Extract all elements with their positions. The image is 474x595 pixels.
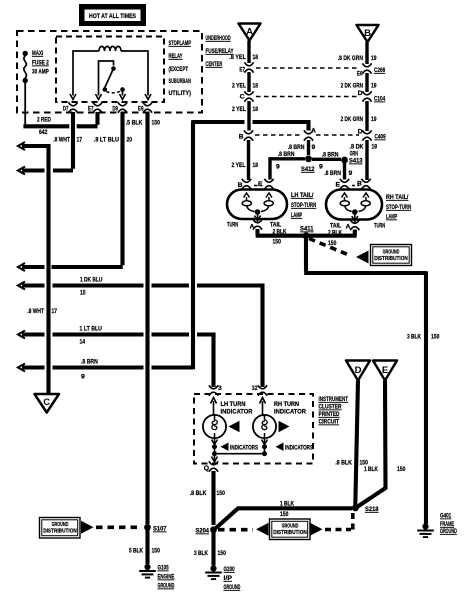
svg-text:G401: G401	[440, 513, 451, 520]
indicators arrow label RH	[276, 443, 284, 451]
svg-text:19: 19	[372, 144, 378, 151]
svg-text:2 DK GRN: 2 DK GRN	[341, 116, 363, 123]
connector D triangle	[346, 361, 370, 381]
svg-text:B: B	[357, 181, 362, 188]
connector C triangle	[35, 394, 60, 413]
wire .8 brn 9 from S412 to LH lamp pin E	[270, 159, 305, 180]
svg-text:5 BLK: 5 BLK	[129, 548, 143, 555]
svg-text:14: 14	[80, 339, 86, 346]
svg-text:LH TAIL/: LH TAIL/	[291, 192, 313, 199]
connector dashed line B-A-D	[255, 134, 301, 136]
wire 3 blk 150 from S411 to G401	[304, 239, 426, 525]
svg-text:9: 9	[81, 374, 85, 381]
ground distribution box (right)	[371, 245, 412, 266]
svg-text:2 RED: 2 RED	[37, 117, 51, 124]
LH indicator arrow	[229, 421, 240, 433]
dashed ground wire to S107	[96, 525, 139, 529]
svg-text:UTILITY): UTILITY)	[169, 90, 191, 97]
wire riser from brn run up and over to connector A	[191, 122, 308, 368]
svg-text:17: 17	[52, 308, 58, 315]
svg-text:SUBURBAN: SUBURBAN	[169, 78, 191, 85]
svg-text:E7: E7	[239, 67, 245, 74]
svg-text:1 BLK: 1 BLK	[280, 501, 294, 508]
connector E triangle	[373, 361, 397, 381]
svg-text:GROUND: GROUND	[282, 524, 299, 530]
svg-text:.8 LT BLU: .8 LT BLU	[94, 137, 119, 144]
relay coil pin arrows	[70, 94, 76, 100]
inline connector C266	[362, 63, 371, 73]
LH tail/stop-turn lamp	[227, 179, 287, 230]
splice S204	[210, 526, 217, 533]
underhood fuse/relay center label	[206, 35, 234, 68]
wire 1 dk blu 15	[22, 286, 263, 388]
svg-text:9: 9	[276, 164, 280, 171]
wire .8 blk 150 from Q to S204	[211, 471, 215, 525]
relay coil	[73, 46, 148, 95]
svg-text:INDICATOR: INDICATOR	[221, 409, 253, 416]
offpage arrow for .8 wht 17	[22, 168, 45, 172]
wire 2 yel 18	[247, 101, 250, 131]
svg-text:PRINTED: PRINTED	[319, 411, 340, 418]
wire .5 blk 150 from relay E9 down to S107	[145, 112, 149, 524]
svg-text:D: D	[358, 90, 363, 97]
svg-text:HOT AT ALL TIMES: HOT AT ALL TIMES	[89, 13, 136, 20]
LH lamp pin labels	[227, 222, 281, 231]
svg-text:FUSE 2: FUSE 2	[32, 60, 49, 67]
svg-text:GROUND: GROUND	[52, 522, 69, 528]
wire .8 wht 17 from relay D7	[53, 112, 73, 171]
svg-text:A: A	[250, 224, 255, 231]
svg-text:18: 18	[253, 106, 259, 113]
instrument cluster dashed box	[194, 394, 313, 464]
svg-text:18: 18	[253, 54, 259, 61]
LH turn indicator	[203, 398, 253, 439]
svg-text:150: 150	[328, 240, 337, 247]
svg-text:RH TAIL/: RH TAIL/	[386, 194, 408, 201]
inline connector E7	[244, 62, 253, 72]
relay pin D7	[68, 102, 77, 112]
svg-text:INDICATORS: INDICATORS	[285, 445, 313, 452]
svg-text:S107: S107	[153, 526, 167, 533]
splice S413	[341, 157, 348, 164]
svg-text:.8 BRN: .8 BRN	[288, 144, 305, 151]
cluster pin Q	[209, 461, 218, 471]
svg-text:2 DK GRN: 2 DK GRN	[341, 83, 363, 90]
svg-text:.8 WHT: .8 WHT	[27, 308, 44, 315]
splice S218	[352, 505, 359, 512]
RH lamp label	[386, 194, 411, 221]
svg-text:E6: E6	[357, 71, 363, 78]
svg-text:S413: S413	[349, 158, 363, 165]
wire 3 blk 150 from S204 to G200	[211, 532, 215, 566]
svg-text:1 LT BLU: 1 LT BLU	[80, 326, 102, 333]
svg-text:INDICATORS: INDICATORS	[230, 445, 258, 452]
svg-text:GROUND: GROUND	[158, 583, 175, 590]
svg-text:E: E	[335, 182, 340, 189]
wire 2 blk 150 from LH lamp to S411	[256, 229, 306, 236]
dashed ground wire S204 to ground distribution	[218, 528, 253, 532]
svg-text:E: E	[382, 365, 388, 376]
svg-text:3: 3	[218, 385, 222, 392]
svg-text:2 BLK: 2 BLK	[328, 230, 342, 237]
wire from relay E7	[77, 112, 98, 126]
svg-text:.5 BLK: .5 BLK	[126, 120, 143, 127]
wire .8 brn 9 from A to S412	[307, 140, 310, 155]
svg-text:UNDERHOOD: UNDERHOOD	[206, 35, 231, 42]
wire .8 blk 150 from D to S218	[355, 381, 358, 506]
svg-text:B: B	[239, 134, 244, 141]
relay pin E9	[143, 102, 152, 112]
svg-text:2 BLK: 2 BLK	[273, 229, 287, 236]
ground distribution box (left)	[40, 518, 81, 539]
cluster pin 3	[209, 385, 218, 395]
svg-text:.8 BRN: .8 BRN	[324, 170, 341, 177]
svg-text:.8 DK: .8 DK	[350, 144, 364, 151]
connector dashed line C-C104	[256, 96, 358, 98]
svg-text:D9: D9	[112, 106, 118, 113]
dashed ground wire to S218	[325, 512, 353, 530]
inline connector C104	[362, 91, 371, 101]
wire .8 brn 9 lower run to instrument feed	[22, 368, 193, 370]
svg-text:E: E	[258, 181, 263, 188]
svg-text:TURN: TURN	[227, 222, 238, 229]
svg-text:S204: S204	[196, 528, 210, 535]
svg-text:G105: G105	[158, 565, 169, 572]
svg-text:CLUSTER: CLUSTER	[319, 404, 342, 411]
RH tail/stop-turn lamp	[326, 179, 382, 230]
RH indicator arrow	[279, 421, 290, 433]
svg-text:S218: S218	[365, 506, 379, 513]
svg-text:RH TURN: RH TURN	[274, 401, 299, 408]
svg-text:.8 DK GRN: .8 DK GRN	[338, 55, 363, 62]
svg-text:150: 150	[397, 466, 406, 473]
svg-text:C104: C104	[374, 96, 385, 103]
svg-text:LH TURN: LH TURN	[221, 401, 246, 408]
svg-text:INDICATOR: INDICATOR	[274, 409, 306, 416]
splice S412	[305, 155, 312, 162]
RH indicator lower wire and junctions	[262, 438, 268, 457]
relay switch	[99, 61, 123, 96]
wire 2 dk grn 19	[365, 101, 368, 131]
svg-text:150: 150	[152, 548, 161, 555]
LH indicator lower wire and junctions	[212, 438, 218, 462]
ground G401	[417, 523, 434, 537]
splice S411	[303, 232, 310, 239]
svg-text:MAXI: MAXI	[32, 50, 43, 57]
svg-text:B: B	[364, 28, 371, 39]
svg-text:E9: E9	[138, 106, 144, 113]
svg-text:.8 BRN: .8 BRN	[278, 151, 295, 158]
svg-text:TURN: TURN	[374, 223, 385, 230]
svg-text:.8 WHT: .8 WHT	[53, 137, 70, 144]
svg-text:2 YEL: 2 YEL	[232, 162, 246, 169]
svg-text:.8 BLK: .8 BLK	[190, 490, 207, 497]
svg-text:150: 150	[152, 120, 161, 127]
RH lamp pin labels	[330, 223, 385, 231]
svg-text:LAMP: LAMP	[386, 214, 397, 221]
svg-text:CENTER: CENTER	[206, 61, 223, 68]
svg-text:S412: S412	[301, 166, 315, 173]
maxi fuse 2 30 amp	[23, 50, 50, 83]
svg-text:A: A	[246, 27, 253, 38]
hot at all times label box	[79, 4, 146, 26]
wire .8 dk grn 19 to lamp	[365, 140, 368, 180]
svg-text:.8 BRN: .8 BRN	[81, 359, 98, 366]
svg-text:FRAME: FRAME	[440, 521, 454, 528]
wire .8 brn 9 from S413 to RH lamp pin E	[343, 163, 346, 180]
dashed wire from S411 to ground distribution ref	[309, 239, 350, 256]
wire 2 yel 18	[247, 72, 250, 92]
svg-text:TAIL: TAIL	[330, 223, 341, 230]
inline connector B	[244, 130, 253, 140]
stoplamp relay dashed box	[56, 37, 164, 103]
svg-text:GROUND: GROUND	[224, 584, 241, 591]
svg-text:1 DK BLU: 1 DK BLU	[80, 277, 102, 284]
offpage stub wire .8 wht feeding connector C	[22, 146, 49, 393]
svg-text:DISTRIBUTION: DISTRIBUTION	[374, 256, 408, 262]
svg-text:.8 YEL: .8 YEL	[229, 54, 246, 61]
svg-text:150: 150	[217, 490, 226, 497]
indicators arrow label LH	[221, 443, 229, 451]
svg-text:STOPLAMP: STOPLAMP	[169, 40, 192, 47]
svg-text:B: B	[238, 182, 243, 189]
wire 1 blk 150 from E to S218	[357, 381, 386, 508]
svg-text:150: 150	[280, 511, 289, 518]
svg-text:STOP-TURN: STOP-TURN	[386, 204, 411, 211]
svg-text:A: A	[311, 128, 316, 135]
svg-text:3 BLK: 3 BLK	[194, 550, 208, 557]
svg-text:INSTRUMENT: INSTRUMENT	[319, 396, 349, 403]
connector B triangle (top)	[357, 25, 379, 42]
svg-text:150: 150	[431, 334, 440, 341]
svg-text:15: 15	[80, 290, 86, 297]
svg-text:2 YEL: 2 YEL	[232, 83, 246, 90]
wire 5 blk 150 from S107 to G105	[145, 530, 149, 564]
svg-text:STOP-TURN: STOP-TURN	[291, 202, 316, 209]
svg-text:1 BLK: 1 BLK	[364, 466, 378, 473]
RH turn indicator	[253, 398, 306, 439]
svg-text:A: A	[346, 224, 351, 231]
svg-text:DISTRIBUTION: DISTRIBUTION	[43, 529, 77, 535]
svg-text:TAIL: TAIL	[270, 222, 281, 229]
svg-text:ENGINE: ENGINE	[158, 574, 175, 581]
inline connector C	[244, 91, 253, 101]
inline connector A (C409)	[304, 130, 313, 140]
svg-text:3 BLK: 3 BLK	[407, 334, 421, 341]
offpage arrow for lt blu 20	[22, 265, 45, 269]
wire 2 yel 18 to lamp	[247, 140, 250, 180]
svg-text:.8 BRN: .8 BRN	[322, 152, 339, 159]
svg-text:150: 150	[218, 550, 227, 557]
relay pin E7	[93, 102, 102, 112]
svg-text:C: C	[240, 94, 245, 101]
wire 2 red 642 from fuse to relay D7	[24, 83, 26, 125]
svg-text:C409: C409	[375, 134, 386, 141]
wire .8 dk grn 19	[365, 42, 368, 64]
relay pin D9	[118, 102, 127, 112]
wire .8 brn 9 from S412 to S413	[312, 158, 341, 161]
svg-text:17: 17	[77, 137, 83, 144]
wire 1 blk 150 from S218 to S204	[216, 508, 352, 528]
wire 1 lt blu 14	[22, 335, 214, 388]
splice S107	[144, 524, 151, 531]
svg-text:C266: C266	[374, 67, 385, 74]
svg-text:GROUND: GROUND	[440, 528, 457, 535]
svg-text:S411: S411	[300, 226, 314, 233]
svg-text:2 YEL: 2 YEL	[232, 106, 246, 113]
wire 2 blk 150 from RH lamp to S411	[306, 230, 357, 236]
underhood fuse/relay center dashed box	[17, 31, 202, 113]
svg-text:E7: E7	[88, 106, 94, 113]
ground distribution arrow left (points left)	[256, 523, 269, 536]
svg-text:D7: D7	[63, 106, 69, 113]
svg-text:I/P: I/P	[224, 575, 233, 582]
svg-text:CIRCUIT: CIRCUIT	[319, 419, 340, 426]
svg-text:19: 19	[371, 83, 377, 90]
svg-text:19: 19	[371, 116, 377, 123]
ground distribution arrow (points right)	[81, 521, 94, 534]
svg-text:9: 9	[349, 170, 353, 177]
svg-text:30 AMP: 30 AMP	[32, 69, 49, 76]
cluster internal bus wire	[215, 447, 265, 454]
svg-text:GROUND: GROUND	[383, 250, 400, 256]
svg-text:9: 9	[312, 144, 316, 151]
svg-text:18: 18	[253, 162, 259, 169]
wire .8 lt blu 20 from relay D9	[52, 112, 123, 267]
svg-text:9: 9	[319, 164, 323, 171]
instrument cluster label	[319, 396, 349, 426]
svg-text:G200: G200	[224, 566, 235, 573]
RH lamp pin connector dash	[352, 185, 359, 187]
stoplamp relay label	[169, 40, 192, 97]
LH lamp label	[291, 192, 316, 219]
svg-text:32: 32	[252, 385, 258, 392]
ground G200	[205, 565, 222, 579]
svg-text:150: 150	[273, 239, 282, 246]
ground G105	[139, 564, 156, 578]
svg-text:18: 18	[253, 83, 259, 90]
connector dashed line E7-C266	[256, 67, 358, 69]
inline connector C409	[362, 130, 371, 140]
ground distribution box (center)	[270, 519, 311, 540]
svg-text:.8 BLK: .8 BLK	[335, 460, 352, 467]
cluster pin 32	[258, 385, 267, 395]
svg-text:RELAY: RELAY	[169, 53, 183, 60]
svg-text:D: D	[355, 365, 362, 376]
svg-text:19: 19	[371, 55, 377, 62]
ground distribution arrow (points left)	[356, 251, 369, 264]
svg-text:GRN: GRN	[350, 151, 358, 158]
svg-text:Q: Q	[204, 465, 209, 472]
svg-text:D: D	[358, 129, 363, 136]
ground distribution arrow right (points right)	[310, 523, 323, 536]
svg-text:20: 20	[127, 137, 133, 144]
relay switch pin arrows	[96, 94, 102, 100]
svg-text:DISTRIBUTION: DISTRIBUTION	[273, 530, 307, 536]
svg-text:642: 642	[39, 129, 48, 136]
connector A triangle (top)	[239, 24, 261, 41]
wire 2 dk grn 19	[365, 73, 368, 92]
svg-text:C: C	[43, 397, 50, 408]
LH lamp pin connector dash	[254, 185, 262, 187]
svg-text:LAMP: LAMP	[291, 212, 302, 219]
svg-text:(EXCEPT: (EXCEPT	[169, 66, 189, 73]
wire .8 yel 18	[247, 41, 250, 64]
